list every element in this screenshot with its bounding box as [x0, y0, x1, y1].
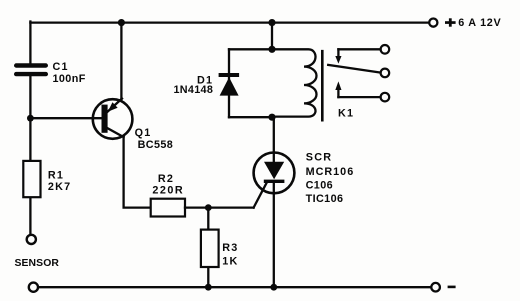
wire SCR cathode [273, 183, 275, 288]
node emitter rail junction [118, 19, 125, 26]
SCR U1 [254, 153, 295, 194]
relay coil K1 [272, 49, 317, 116]
terminal bottom left [29, 283, 38, 292]
label Q1 BC558 [135, 127, 174, 151]
svg-text:220R: 220R [152, 184, 184, 196]
svg-text:Q1: Q1 [135, 127, 152, 139]
svg-text:SCR: SCR [306, 151, 332, 163]
wire D1 top [229, 48, 272, 50]
svg-text:R2: R2 [158, 173, 174, 185]
wire D1 bottom [229, 116, 272, 118]
capacitor C1 [14, 63, 48, 76]
relay contact NC [335, 49, 380, 63]
wire top rail [30, 21, 428, 23]
label C1 100nF [53, 61, 86, 85]
wire base [30, 117, 101, 119]
wire gate node down [207, 208, 209, 288]
relay contact terminals [381, 45, 390, 101]
svg-text:R1: R1 [48, 169, 64, 181]
relay core [321, 51, 324, 120]
transistor Q1 [93, 99, 133, 139]
label R1 2K7 [48, 169, 71, 192]
wire bottom rail [38, 286, 431, 288]
relay pole [328, 65, 380, 73]
svg-text:BC558: BC558 [138, 139, 174, 151]
svg-text:100nF: 100nF [53, 73, 86, 85]
node coil top junction [268, 46, 275, 53]
svg-text:C1: C1 [53, 61, 69, 73]
terminal sensor [27, 235, 36, 244]
svg-text:1N4148: 1N4148 [174, 84, 214, 96]
svg-text:K1: K1 [338, 107, 354, 119]
label R2 220R [152, 173, 184, 196]
svg-text:1K: 1K [222, 256, 238, 268]
node coil bottom junction [268, 114, 275, 121]
resistor R2 [151, 199, 185, 217]
wire rail to coil top [271, 23, 273, 50]
node base junction [27, 115, 34, 122]
wire left rail upper [29, 22, 31, 64]
terminal +V [429, 19, 437, 27]
node gate junction [205, 204, 212, 211]
wire left rail lower [29, 76, 31, 234]
wire collector down [124, 137, 151, 208]
node R3 bottom junction [205, 284, 212, 291]
svg-text:R3: R3 [222, 242, 238, 254]
node SCR cathode junction [270, 284, 277, 291]
wire R2 to gate node [185, 206, 254, 208]
resistor R1 [23, 161, 40, 197]
wire SCR anode [273, 117, 275, 162]
node rail junction [268, 19, 275, 26]
label R3 1K [222, 242, 238, 268]
relay contact NO [335, 81, 380, 97]
svg-text:TIC106: TIC106 [306, 193, 344, 205]
label minus [448, 286, 456, 289]
label +6A12V [445, 17, 502, 29]
svg-text:C106: C106 [306, 180, 333, 192]
resistor R3 [201, 230, 219, 267]
wire emitter to rail [120, 23, 122, 101]
label D1 1N4148 [174, 74, 214, 96]
diode D1 [219, 49, 240, 117]
svg-text:6 A 12V: 6 A 12V [458, 17, 501, 29]
svg-text:2K7: 2K7 [48, 181, 71, 193]
label SCR types [306, 151, 355, 204]
svg-text:SENSOR: SENSOR [15, 258, 60, 269]
svg-text:MCR106: MCR106 [306, 166, 355, 178]
wire gate diagonal [254, 182, 268, 208]
terminal minus [431, 283, 440, 292]
